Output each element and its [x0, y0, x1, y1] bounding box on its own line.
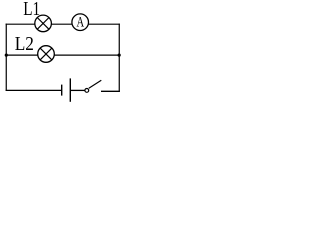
switch S lever [89, 80, 102, 88]
wire L2 branch [6, 54, 120, 56]
lamp L2 [38, 46, 55, 63]
wire right vertical [118, 24, 120, 92]
svg-text:A: A [76, 14, 84, 30]
svg-text:L2: L2 [15, 33, 34, 55]
lamp L1 [35, 15, 52, 32]
wire top branch [6, 23, 120, 25]
battery short plate (negative) [61, 85, 63, 96]
battery long plate (positive) [69, 78, 71, 101]
junction node left [5, 54, 8, 57]
wire left vertical [5, 24, 7, 91]
wire bottom left [6, 89, 62, 91]
wire battery to switch [70, 89, 85, 91]
ammeter A [72, 14, 89, 31]
wire bottom right [101, 90, 120, 92]
svg-text:L1: L1 [23, 0, 40, 20]
junction node right [118, 54, 121, 57]
switch S pivot circle [85, 89, 89, 93]
